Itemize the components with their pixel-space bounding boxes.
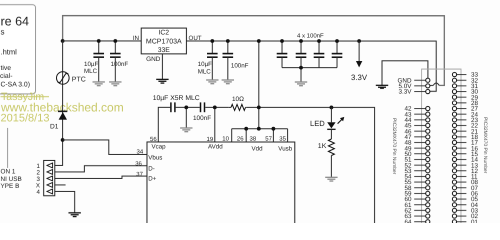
svg-text:IC2: IC2 bbox=[159, 29, 170, 36]
pin 33 right bbox=[457, 74, 467, 76]
capacitor 100nF at 282 bbox=[281, 41, 283, 54]
wire cap bank bus bbox=[282, 67, 337, 69]
wire USB Vbus vertical through PTC and D1 bbox=[55, 41, 63, 166]
connector USB CON1 bbox=[44, 160, 55, 195]
pin 05 right bbox=[457, 198, 467, 200]
connector pin 3 bbox=[47, 176, 53, 181]
pin 08 right bbox=[457, 181, 467, 183]
pin 23 right bbox=[457, 119, 467, 121]
wire AVdd drop bbox=[214, 107, 216, 142]
svg-text:GND: GND bbox=[146, 56, 161, 63]
pin 13 right bbox=[457, 164, 467, 166]
svg-text:MLC: MLC bbox=[84, 68, 98, 75]
svg-text:cial-: cial- bbox=[0, 73, 12, 80]
ground USB shell bbox=[68, 212, 80, 214]
svg-text:10µF: 10µF bbox=[198, 61, 212, 68]
svg-text:Vusb: Vusb bbox=[278, 145, 292, 152]
pin 48 left bbox=[414, 141, 426, 143]
wire IC2 ground bbox=[161, 54, 163, 79]
wire USB pin 4 to ground bbox=[55, 191, 75, 212]
pin 22 right bbox=[457, 124, 467, 126]
svg-text:D-: D- bbox=[148, 165, 155, 172]
svg-text:56: 56 bbox=[150, 136, 157, 143]
pin 24 right bbox=[457, 113, 467, 115]
svg-text:100nF: 100nF bbox=[111, 61, 129, 68]
wire header GND bbox=[382, 61, 428, 86]
svg-text:ON 1: ON 1 bbox=[0, 168, 15, 175]
pin 21 right bbox=[457, 130, 467, 132]
svg-text:LED: LED bbox=[310, 119, 325, 128]
pin 16 right bbox=[457, 147, 467, 149]
wire USB D- to pin 36 bbox=[55, 166, 147, 172]
capacitor 100nF at 319 bbox=[318, 41, 320, 54]
pin 45 left bbox=[414, 124, 426, 126]
op IC1 microcontroller box bbox=[147, 142, 295, 224]
svg-text:Vbus: Vbus bbox=[148, 155, 162, 162]
node 5V/IN junction bbox=[61, 39, 65, 43]
pin 50 left bbox=[414, 153, 426, 155]
pin 59 left bbox=[414, 192, 426, 194]
wire top 5V rail bbox=[63, 16, 445, 86]
svg-text:AVdd: AVdd bbox=[208, 144, 223, 151]
ground header GND bbox=[376, 84, 388, 86]
wire X5R ground bbox=[185, 107, 187, 128]
ground output cap2 bbox=[222, 79, 234, 81]
pin 15 right bbox=[457, 153, 467, 155]
svg-text:MLC: MLC bbox=[198, 68, 212, 75]
wire Vbus to pin 34 bbox=[63, 140, 147, 155]
svg-text:38: 38 bbox=[249, 136, 256, 143]
pin 02 right bbox=[457, 215, 467, 217]
pin 12 right bbox=[457, 170, 467, 172]
pin 17 right bbox=[457, 141, 467, 143]
svg-text:3.3V: 3.3V bbox=[399, 89, 413, 96]
connector pin X bbox=[47, 183, 53, 188]
wire USB D+ to pin 37 bbox=[55, 176, 147, 178]
svg-text:YPE B: YPE B bbox=[0, 183, 19, 190]
wire X5R to 100nF bbox=[176, 106, 200, 108]
pin 18 right bbox=[457, 136, 467, 138]
info box top left bbox=[0, 5, 36, 94]
diode D1 bbox=[58, 110, 67, 112]
svg-text:PTC: PTC bbox=[72, 76, 86, 83]
pin 3.3V left bbox=[414, 91, 426, 93]
pin 32 right bbox=[457, 79, 467, 81]
wire pin drop at 246.2 bbox=[245, 129, 247, 142]
wire Vdd drop bbox=[258, 41, 260, 129]
header rectangle bbox=[422, 69, 461, 224]
pin 30 right bbox=[457, 91, 467, 93]
svg-text:33E: 33E bbox=[158, 47, 171, 54]
svg-text:100nF: 100nF bbox=[193, 115, 211, 122]
pin 07 right bbox=[457, 187, 467, 189]
svg-text:C-SA 3.0): C-SA 3.0) bbox=[1, 81, 30, 88]
capacitor 100nF AVdd bbox=[199, 102, 201, 112]
pin 28 right bbox=[457, 102, 467, 104]
svg-text:PIC32MX470 Pin Number: PIC32MX470 Pin Number bbox=[482, 117, 488, 174]
svg-text:10Ω: 10Ω bbox=[232, 96, 244, 103]
capacitor 100nF at 301 bbox=[300, 41, 302, 54]
pin 46 left bbox=[414, 130, 426, 132]
pin 06 right bbox=[457, 192, 467, 194]
svg-text:36: 36 bbox=[135, 161, 142, 168]
wire cap bank ground bbox=[300, 68, 302, 82]
svg-text:4: 4 bbox=[37, 189, 41, 196]
svg-text:64: 64 bbox=[404, 219, 412, 223]
wire pin drop at 231.7 bbox=[231, 129, 233, 142]
svg-text:1K: 1K bbox=[318, 143, 327, 150]
wire USB pin X stub bbox=[55, 184, 66, 186]
node D1 junction bbox=[61, 138, 65, 142]
wire Vdd bus bbox=[232, 128, 288, 130]
svg-text:re 64: re 64 bbox=[1, 14, 30, 28]
svg-text:D1: D1 bbox=[50, 124, 59, 131]
pin 60 left bbox=[414, 198, 426, 200]
wire left edge fragment bbox=[7, 128, 9, 168]
svg-text:.html: .html bbox=[1, 47, 18, 56]
wire pin drop at 273.4 bbox=[272, 129, 274, 142]
op IC2 MCP1703A regulator bbox=[141, 28, 186, 54]
svg-text:57: 57 bbox=[265, 136, 272, 143]
svg-text:4 x 100nF: 4 x 100nF bbox=[297, 32, 324, 39]
wire OUT 3.3V rail bbox=[186, 41, 436, 91]
pin 63 left bbox=[414, 215, 426, 217]
svg-text:26: 26 bbox=[237, 136, 244, 143]
pin 5.0V left bbox=[414, 85, 426, 87]
pin 31 right bbox=[457, 85, 467, 87]
pin 49 left bbox=[414, 147, 426, 149]
svg-text:35: 35 bbox=[279, 136, 286, 143]
ground X5R bbox=[180, 127, 192, 129]
pin 29 right bbox=[457, 96, 467, 98]
svg-text:D+: D+ bbox=[148, 176, 156, 183]
svg-text:IN: IN bbox=[133, 35, 139, 42]
svg-text:3.3V: 3.3V bbox=[351, 73, 368, 82]
wire IN rail bbox=[63, 40, 142, 42]
pin 55 left bbox=[414, 181, 426, 183]
svg-text:s: s bbox=[1, 27, 5, 36]
pin GND left bbox=[414, 79, 426, 81]
ground input cap1 bbox=[93, 81, 105, 83]
svg-text:37: 37 bbox=[136, 171, 143, 178]
pin 52 left bbox=[414, 164, 426, 166]
svg-text:MCP1703A: MCP1703A bbox=[146, 39, 182, 46]
pin 61 left bbox=[414, 204, 426, 206]
pin 01 right bbox=[457, 221, 467, 223]
svg-text:10: 10 bbox=[222, 136, 229, 143]
svg-text:PIC32MX470 Pin Number: PIC32MX470 Pin Number bbox=[391, 118, 397, 175]
pin 54 left bbox=[414, 175, 426, 177]
LED emission arrows bbox=[338, 119, 343, 124]
svg-text:100nF: 100nF bbox=[231, 62, 249, 69]
pin 43 left bbox=[414, 113, 426, 115]
pin 04 right bbox=[457, 204, 467, 206]
svg-text:2015/8/13: 2015/8/13 bbox=[0, 112, 49, 124]
svg-text:NI USB: NI USB bbox=[0, 176, 21, 183]
wire pin drop at 287.6 bbox=[287, 129, 289, 142]
svg-text:Vcap: Vcap bbox=[151, 144, 166, 151]
pin 47 left bbox=[414, 136, 426, 138]
pin 62 left bbox=[414, 209, 426, 211]
svg-text:01: 01 bbox=[471, 219, 479, 223]
ground input cap2 bbox=[109, 81, 121, 83]
connector pin 1 bbox=[47, 163, 53, 168]
pin 53 left bbox=[414, 170, 426, 172]
pin 58 left bbox=[414, 187, 426, 189]
pin 64 left bbox=[414, 221, 426, 223]
ground IC2 bbox=[156, 78, 168, 80]
svg-text:Vdd: Vdd bbox=[251, 145, 263, 152]
ground cap bank bbox=[295, 81, 307, 83]
PTC thermistor bbox=[57, 72, 70, 85]
connector pin 2 bbox=[47, 170, 53, 175]
pin 03 right bbox=[457, 209, 467, 211]
capacitor C 10uF MLC input bbox=[98, 41, 100, 54]
pin 44 left bbox=[414, 119, 426, 121]
wire resistor to LED junction and off bottom bbox=[246, 107, 374, 224]
capacitor C 100nF input bbox=[114, 41, 116, 54]
capacitor C 100nF output bbox=[227, 41, 229, 54]
svg-text:tive: tive bbox=[1, 65, 12, 72]
pin 27 right bbox=[457, 108, 467, 110]
svg-text:10µF X5R MLC: 10µF X5R MLC bbox=[153, 95, 200, 102]
capacitor C 10uF MLC output bbox=[211, 41, 213, 54]
pin 11 right bbox=[457, 175, 467, 177]
capacitor 100nF at 337 bbox=[336, 41, 338, 54]
ground LED bbox=[325, 176, 337, 178]
svg-text:19: 19 bbox=[206, 136, 213, 143]
pin 42 left bbox=[414, 108, 426, 110]
svg-text:OUT: OUT bbox=[189, 35, 202, 42]
pin 14 right bbox=[457, 158, 467, 160]
ground output cap1 bbox=[206, 79, 218, 81]
pin 51 left bbox=[414, 158, 426, 160]
connector pin 4 bbox=[47, 189, 53, 194]
node 3.3V arrow bbox=[357, 39, 361, 43]
wire hop over 3.3V drop bbox=[433, 83, 439, 85]
svg-text:34: 34 bbox=[136, 149, 143, 156]
